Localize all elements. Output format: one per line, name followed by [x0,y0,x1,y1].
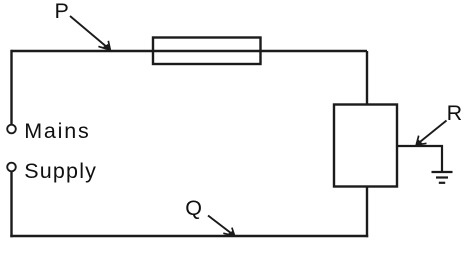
wire: bottom horizontal [10,235,368,237]
terminal circle: Supply [7,163,16,172]
wire: tap from load right side to ground [397,146,442,172]
load / resistor block (rectangle) [334,105,397,187]
wire: top horizontal from left corner to right corner [12,50,368,52]
svg-text:Mains: Mains [24,119,90,143]
arrow from Q to bottom wire [208,216,235,237]
wire: left vertical lower segment [10,172,12,238]
arrow from P to top wire [70,16,111,50]
wire: left vertical upper segment [10,50,12,125]
svg-text:Supply: Supply [24,159,97,183]
arrow from R to tap wire [416,121,447,146]
terminal circle: Mains [7,125,16,134]
fuse F (rectangle on top wire) [153,38,261,65]
svg-text:R: R [447,101,463,125]
svg-text:Q: Q [185,196,202,220]
wire: right vertical lower segment [366,187,368,238]
ground symbol [432,172,453,183]
svg-text:P: P [55,0,69,23]
wire: right vertical upper segment [366,51,368,105]
